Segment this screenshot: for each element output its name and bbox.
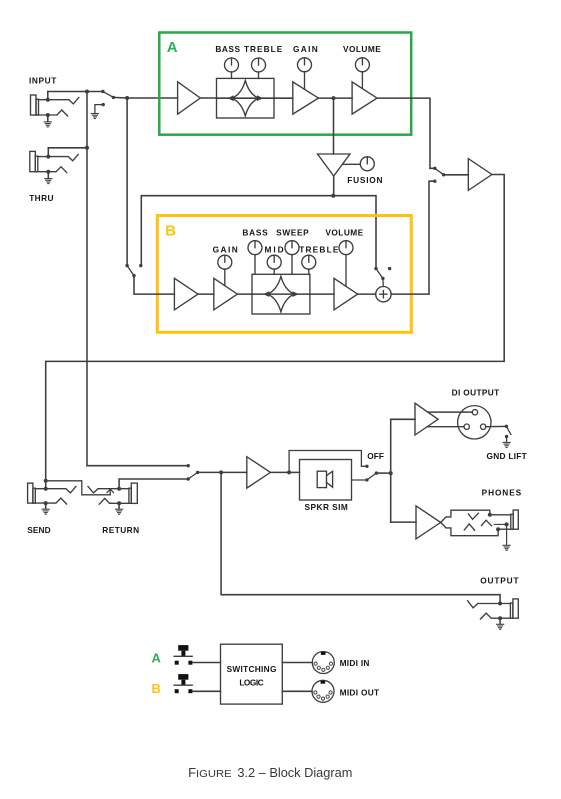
switch SW6 common xyxy=(375,471,378,474)
wire tone box B to B3 xyxy=(310,293,334,295)
wire SW3 to summer xyxy=(382,278,384,286)
wire di branch xyxy=(391,418,415,420)
wire fusion knob link xyxy=(343,163,361,165)
svg-text:OUTPUT: OUTPUT xyxy=(480,575,519,585)
knob VOLUME (A) xyxy=(355,58,369,72)
knob TREBLE (A) xyxy=(252,58,266,72)
jack J6 sleeve rail xyxy=(480,613,513,619)
op-amp A2 GAIN xyxy=(293,82,319,114)
node send sleeve xyxy=(44,501,48,505)
connector DIN MIDI OUT xyxy=(312,680,334,702)
node phones bottom step xyxy=(496,527,500,531)
wire thru vertical x87 xyxy=(86,92,88,466)
xlr pin 3 xyxy=(481,424,486,429)
op-amp U7 phones xyxy=(416,506,441,539)
wire to power amp xyxy=(198,471,247,473)
knob BASS (A) xyxy=(225,58,239,72)
switch SW7 ground contact xyxy=(505,435,508,438)
switch SW7 gnd lift contact xyxy=(505,425,508,428)
wire fusion bus xyxy=(141,196,376,269)
ground at OUTPUT xyxy=(499,618,501,624)
knob BASS (B) xyxy=(248,241,262,255)
svg-text:A: A xyxy=(152,650,162,665)
footswitch B plunger xyxy=(178,674,188,680)
ground at THRU jack xyxy=(47,172,49,178)
tone star A xyxy=(232,80,259,116)
svg-text:SWITCHING: SWITCHING xyxy=(227,664,277,674)
switch SW6 sim bypass: throw off xyxy=(365,465,368,468)
node return sleeve xyxy=(117,501,121,505)
wire tip riser xyxy=(47,92,49,100)
jack J4 sleeve rail xyxy=(99,498,131,504)
ground at INPUT jack xyxy=(47,115,49,121)
normalling arrow contact xyxy=(109,490,111,495)
xlr pin 1 xyxy=(464,424,469,429)
switch SW4 blade xyxy=(435,168,444,175)
wire preamp feed xyxy=(87,465,188,467)
wire A1 to tone box xyxy=(200,97,216,99)
ground at SEND xyxy=(45,503,47,509)
node send tip xyxy=(44,487,48,491)
switch SW4 A/B select: jog from A xyxy=(430,167,435,169)
ground at RETURN xyxy=(118,503,120,508)
footswitch B bar xyxy=(174,684,192,686)
ground at phones xyxy=(506,524,508,544)
switch SW5 throw return xyxy=(187,477,190,480)
jack J5 body xyxy=(513,510,518,529)
svg-text:B: B xyxy=(165,222,176,239)
wire send-return normal bridge xyxy=(46,481,111,495)
wire di balanced cold xyxy=(427,426,464,428)
wire footswitch B to logic xyxy=(192,690,220,692)
op-amp B2 GAIN xyxy=(214,278,238,310)
switch SW3 fusion insert: upper contact xyxy=(374,267,377,270)
jack J5 ring contact xyxy=(482,520,492,526)
svg-text:TREBLE: TREBLE xyxy=(299,245,339,255)
jack J5 tip contact xyxy=(468,513,478,519)
node fusion tap xyxy=(332,96,336,100)
tone arrow left B xyxy=(263,291,269,297)
jack J6 tip rail xyxy=(468,601,511,608)
switch SW7 blade xyxy=(506,426,511,434)
wire fusion drop xyxy=(333,98,335,154)
switch SW2 blade xyxy=(127,266,134,276)
jack J6 OUTPUT body xyxy=(513,599,518,618)
wire B output xyxy=(391,181,435,294)
block SPKR SIM box xyxy=(300,460,352,501)
svg-text:FUSION: FUSION xyxy=(347,175,383,185)
node return tip xyxy=(117,487,121,491)
wire to output bus xyxy=(376,472,390,474)
switch SW3 blade xyxy=(376,269,383,279)
tone star B xyxy=(268,276,295,312)
ground at gnd lift xyxy=(506,437,508,442)
node output bus junction xyxy=(389,471,393,475)
svg-text:VOLUME: VOLUME xyxy=(325,227,363,237)
jack J5 PHONES plug shaft top xyxy=(441,510,511,522)
svg-text:B: B xyxy=(152,681,161,696)
op-amp B1 xyxy=(174,278,198,310)
jack J2 sleeve rail xyxy=(35,167,66,173)
wire B input xyxy=(134,276,174,295)
node output sleeve xyxy=(498,616,502,620)
switch SW3 common xyxy=(381,277,384,280)
ground at mute switch xyxy=(91,114,98,119)
svg-text:GAIN: GAIN xyxy=(213,245,238,255)
svg-text:SPKR SIM: SPKR SIM xyxy=(305,502,349,512)
jack J3 sleeve rail xyxy=(33,498,67,504)
wire gain amp to volume amp xyxy=(318,97,352,99)
node send bridge tap xyxy=(44,479,48,483)
switch SW1 ground throw xyxy=(102,103,105,106)
node thru sleeve xyxy=(46,170,50,174)
knob VOLUME (B) xyxy=(339,241,353,255)
wire spkr sim out xyxy=(352,479,367,481)
tone stack box B xyxy=(252,274,310,314)
svg-text:BASS: BASS xyxy=(215,44,240,54)
svg-text:THRU: THRU xyxy=(29,193,54,203)
wire logic to midi in xyxy=(282,662,312,664)
wire bypass loop xyxy=(289,451,367,473)
op-amp U4 master xyxy=(468,159,492,191)
jack J2 tip rail xyxy=(38,154,78,160)
footswitch A contacts xyxy=(175,661,179,665)
wire tone box to gain amp xyxy=(274,97,293,99)
svg-text:VOLUME: VOLUME xyxy=(343,44,381,54)
jack J4 tip rail xyxy=(88,487,129,493)
svg-text:MIDI OUT: MIDI OUT xyxy=(340,688,380,698)
switch SW2 throw from fusion xyxy=(139,264,142,267)
wire to master amp xyxy=(444,174,469,176)
svg-text:TREBLE: TREBLE xyxy=(244,44,283,54)
op-amp U6 DI driver xyxy=(415,403,438,435)
tone arrow left A xyxy=(228,95,234,101)
switch SW2 channel B input: throw from input xyxy=(125,264,128,267)
svg-text:GAIN: GAIN xyxy=(293,44,318,54)
jack J3 SEND body xyxy=(28,483,33,503)
switch SW3 open contact xyxy=(388,267,391,270)
stem TREBLE (A) xyxy=(258,72,260,79)
tone arrow right B xyxy=(293,291,299,297)
wire B3 to summer xyxy=(358,293,376,295)
svg-text:MID: MID xyxy=(265,245,284,255)
jack J2 THRU body xyxy=(30,151,36,171)
knob MID (B) xyxy=(267,255,281,269)
svg-text:INPUT: INPUT xyxy=(29,76,57,86)
summer node plus circle xyxy=(376,287,391,302)
xlr pin 2 xyxy=(472,410,477,415)
switch SW6 throw sim xyxy=(365,478,368,481)
stem VOLUME (B) xyxy=(345,255,347,287)
speaker icon xyxy=(317,471,326,487)
tone arrow right A xyxy=(257,95,263,101)
wire through tone box B xyxy=(252,293,310,295)
jack J5 sleeve contact xyxy=(464,524,474,530)
switch SW1 common xyxy=(112,96,115,99)
wire send feed to tip xyxy=(45,481,47,489)
wire B2 to tone box B xyxy=(237,293,252,295)
block SWITCHING LOGIC box xyxy=(221,644,283,704)
wire footswitch A to logic xyxy=(192,662,220,664)
node thru branch xyxy=(85,90,89,94)
knob GAIN (B) xyxy=(218,255,232,269)
svg-text:DI OUTPUT: DI OUTPUT xyxy=(452,388,500,398)
svg-text:A: A xyxy=(167,39,178,56)
svg-text:PHONES: PHONES xyxy=(482,488,522,498)
switch SW4 common xyxy=(442,173,445,176)
wire main A feed xyxy=(113,96,177,99)
wire through tone box A xyxy=(217,97,275,99)
mixer FUSION triangle xyxy=(318,154,351,176)
knob FUSION xyxy=(360,157,374,171)
node phones top step xyxy=(488,513,492,517)
op-amp B3 VOLUME xyxy=(334,278,358,310)
svg-text:RETURN: RETURN xyxy=(102,525,139,535)
connector XLR DI xyxy=(458,406,491,439)
switch SW6 blade xyxy=(367,473,377,480)
switch SW5 common xyxy=(196,471,199,474)
wire drop to B switch xyxy=(126,98,128,266)
channel A green frame xyxy=(159,33,411,135)
stem MID (B) xyxy=(273,269,275,274)
wire mute ground stub xyxy=(95,105,103,113)
wire logic to midi out xyxy=(282,690,312,692)
wire output bus vertical xyxy=(390,419,392,522)
op-amp U5 power xyxy=(247,457,271,488)
svg-text:LOGIC: LOGIC xyxy=(239,677,264,687)
node thru tip xyxy=(46,155,50,159)
stem BASS (A) xyxy=(231,72,233,79)
wire power amp to spkr sim xyxy=(270,471,299,473)
connector DIN MIDI IN xyxy=(312,652,334,674)
wire di balanced hot xyxy=(428,411,472,413)
svg-text:GND LIFT: GND LIFT xyxy=(487,451,527,461)
node phones ring tap xyxy=(505,522,509,526)
jack J3 tip rail xyxy=(35,487,76,493)
wire input top feed xyxy=(48,91,103,93)
stem VOLUME (A) xyxy=(361,72,363,89)
wire A output xyxy=(377,98,430,168)
stem SWEEP (B) xyxy=(291,255,293,275)
svg-text:MIDI IN: MIDI IN xyxy=(340,658,370,668)
knob GAIN (A) xyxy=(298,58,312,72)
op-amp A3 VOLUME xyxy=(352,82,377,114)
stem BASS (B) xyxy=(254,255,256,275)
switch SW1 input mute: throw A xyxy=(101,90,104,93)
channel B yellow frame xyxy=(157,216,411,333)
stem GAIN (A) xyxy=(304,72,306,90)
op-amp A1 xyxy=(178,82,201,114)
switch SW2 common xyxy=(132,274,135,277)
wire fusion out xyxy=(333,176,335,196)
node output branch xyxy=(219,470,223,474)
wire B1 to B2 xyxy=(198,293,214,295)
node sleeve junction xyxy=(46,113,50,117)
wire xlr to gnd lift xyxy=(486,425,507,427)
svg-text:3.2 – Block Diagram: 3.2 – Block Diagram xyxy=(237,765,352,780)
footswitch B contacts xyxy=(175,689,179,693)
node fusion junction xyxy=(331,194,335,198)
node thru tap xyxy=(85,146,89,150)
tone stack box A xyxy=(217,78,275,118)
node B-channel branch xyxy=(125,96,129,100)
knob TREBLE (B) xyxy=(302,255,316,269)
node output tip junction xyxy=(498,602,502,606)
switch SW5 loop: throw preamp xyxy=(187,464,190,467)
jack J1 INPUT body xyxy=(31,95,37,115)
wire phones branch xyxy=(391,521,416,523)
wire ring tap link xyxy=(494,523,506,525)
jack J5 plug shaft bottom xyxy=(441,522,514,535)
switch SW4 throw B xyxy=(433,180,436,183)
wire output branch xyxy=(221,472,500,603)
jack J1 tip rail xyxy=(39,98,79,104)
wire thru feed xyxy=(48,148,87,157)
switch SW4 throw A xyxy=(433,167,436,170)
svg-text:SWEEP: SWEEP xyxy=(276,227,309,237)
knob SWEEP (B) xyxy=(285,241,299,255)
wire master out descend xyxy=(46,175,505,481)
jack J1 sleeve rail xyxy=(36,110,68,116)
stem TREBLE (B) xyxy=(308,269,310,274)
footswitch A plunger xyxy=(178,645,188,651)
svg-text:FIGURE: FIGURE xyxy=(188,765,232,780)
switch SW5 blade xyxy=(188,472,197,479)
switch SW1 blade xyxy=(103,92,114,98)
node bypass tap xyxy=(287,470,291,474)
footswitch A bar xyxy=(174,655,192,657)
wire return feed xyxy=(119,479,188,489)
svg-text:OFF: OFF xyxy=(367,451,384,461)
jack J4 RETURN body xyxy=(131,483,137,503)
svg-text:SEND: SEND xyxy=(27,525,51,535)
stem GAIN (B) xyxy=(224,269,226,286)
node tip junction xyxy=(46,98,50,102)
svg-text:BASS: BASS xyxy=(242,227,268,237)
